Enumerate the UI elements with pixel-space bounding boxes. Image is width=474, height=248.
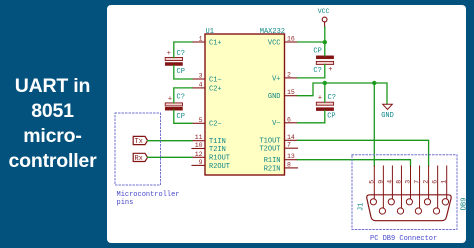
svg-text:8: 8 (395, 180, 402, 184)
pin 9 R2OUT (192, 159, 230, 171)
wire Rx to pin 12 (148, 156, 192, 158)
pin 15 GND (268, 89, 298, 101)
svg-text:MAX232: MAX232 (260, 28, 285, 36)
pin 11 T1IN (192, 134, 226, 146)
svg-text:T1IN: T1IN (209, 138, 226, 146)
svg-text:C2−: C2− (209, 121, 222, 129)
junction node VCC/pin16 (323, 40, 327, 44)
wire T1OUT to DB9 pin 2 (298, 140, 429, 166)
svg-text:CP: CP (177, 113, 185, 121)
wire pin 6 V- (298, 122, 325, 124)
capacitor C4 (CP, GND to V-) (316, 94, 336, 120)
IC U1 MAX232 body (205, 28, 285, 175)
DB9 pin 4 (386, 166, 394, 205)
pin 12 R1OUT (192, 151, 230, 163)
wire GND drop to DB9 pin 5 (373, 83, 375, 166)
svg-text:+: + (318, 95, 322, 103)
svg-text:R2IN: R2IN (264, 165, 281, 173)
pin 1 C1+ (192, 36, 222, 48)
svg-text:GND: GND (381, 112, 394, 120)
pin 6 V- (272, 116, 297, 128)
svg-text:VCC: VCC (318, 8, 330, 15)
svg-text:7: 7 (287, 142, 291, 149)
svg-text:C?: C? (177, 50, 185, 58)
wire Tx to pin 11 (148, 140, 192, 142)
svg-text:Microcontroller: Microcontroller (117, 191, 180, 199)
svg-text:12: 12 (195, 151, 203, 158)
svg-text:10: 10 (195, 142, 203, 149)
svg-text:VCC: VCC (268, 39, 281, 47)
svg-text:7: 7 (414, 180, 421, 184)
wire pin 15 GND step (298, 83, 375, 96)
pin 2 V+ (272, 71, 297, 83)
svg-text:CP: CP (177, 68, 185, 76)
svg-text:V−: V− (272, 120, 280, 128)
svg-text:CP: CP (313, 48, 321, 56)
DB9 pin 8 (395, 166, 403, 214)
pin 3 C1- (192, 73, 222, 85)
wire C1 bottom to pin 3 (174, 66, 192, 80)
svg-text:J1: J1 (358, 203, 366, 211)
svg-text:GND: GND (268, 93, 281, 101)
svg-text:8: 8 (287, 161, 291, 168)
svg-text:6: 6 (432, 180, 439, 184)
capacitor C3 (CP, VCC to V+) (313, 48, 333, 76)
svg-text:+: + (168, 95, 172, 103)
svg-text:C?: C? (177, 94, 185, 102)
capacitor C2 (CP, left bottom) (165, 94, 185, 122)
svg-text:C1−: C1− (209, 76, 222, 84)
connector J1 DB9 body (358, 195, 469, 221)
wire C4 bottom to V- line (324, 111, 326, 123)
pin 16 VCC (268, 36, 298, 48)
svg-text:pins: pins (117, 199, 134, 207)
svg-text:2: 2 (287, 71, 291, 78)
svg-text:1: 1 (199, 36, 203, 43)
svg-text:Tx: Tx (134, 138, 142, 146)
svg-text:+: + (167, 50, 171, 58)
svg-text:R1IN: R1IN (264, 157, 281, 165)
DB9 pin 3 (405, 166, 413, 205)
wire C3 bottom to V+ line (324, 64, 326, 78)
svg-text:DB9: DB9 (460, 198, 468, 211)
wire C1 top to pin 1 (174, 42, 192, 58)
wire R1IN to DB9 pin 3 (298, 160, 411, 166)
wire C2 top to pin 4 (174, 88, 192, 103)
power symbol VCC (318, 8, 330, 27)
DB9 pin 9 (377, 166, 385, 214)
wire pin16 to node (298, 41, 325, 43)
DB9 pin 5 (368, 166, 376, 205)
svg-text:C?: C? (328, 94, 336, 102)
svg-text:Rx: Rx (134, 155, 142, 163)
svg-text:1: 1 (441, 180, 448, 184)
svg-text:T2IN: T2IN (209, 146, 226, 154)
DB9 pin 1 (441, 166, 449, 205)
wire C2 bottom to pin 5 (174, 110, 192, 123)
PC DB9 connector dashed box (352, 155, 457, 243)
label Tx (133, 136, 147, 146)
svg-text:5: 5 (199, 117, 203, 124)
wire VCC to pin16 node (324, 27, 326, 42)
svg-text:3: 3 (199, 73, 203, 80)
ground (381, 104, 394, 120)
DB9 pin 2 (423, 166, 431, 205)
pin 5 C2- (192, 117, 222, 129)
svg-text:13: 13 (287, 153, 295, 160)
svg-text:9: 9 (377, 180, 384, 184)
microcontroller pins dashed box (115, 113, 180, 207)
svg-text:9: 9 (199, 159, 203, 166)
svg-text:U1: U1 (206, 28, 214, 36)
wire pin 2 V+ (298, 77, 325, 79)
svg-text:11: 11 (195, 134, 203, 141)
svg-text:C?: C? (313, 67, 321, 75)
svg-text:+: + (328, 66, 332, 74)
pin 10 T2IN (192, 142, 226, 154)
svg-text:4: 4 (199, 81, 203, 88)
svg-text:CP: CP (327, 112, 335, 120)
svg-text:2: 2 (423, 180, 430, 184)
junction node GND rail / DB9 drop (372, 81, 376, 85)
svg-text:PC DB9 Connector: PC DB9 Connector (370, 235, 437, 243)
DB9 pin 7 (414, 166, 422, 214)
svg-text:C1+: C1+ (209, 39, 222, 47)
svg-text:4: 4 (386, 180, 393, 184)
svg-text:R2OUT: R2OUT (209, 163, 230, 171)
label Rx (133, 153, 147, 163)
svg-text:6: 6 (287, 116, 291, 123)
pin 13 R1IN (264, 153, 298, 165)
svg-text:V+: V+ (272, 75, 280, 83)
svg-text:C2+: C2+ (209, 85, 222, 93)
capacitor C1 (CP, left top) (165, 50, 185, 76)
pin 4 C2+ (192, 81, 222, 93)
svg-text:3: 3 (405, 180, 412, 184)
DB9 pin 6 (432, 166, 440, 214)
junction node C4/GND rail (323, 81, 327, 85)
wire GND node to C4 top (324, 83, 326, 102)
svg-text:16: 16 (287, 36, 295, 43)
wire node to C3 top (324, 42, 326, 56)
pin 8 R2IN (264, 161, 298, 173)
svg-text:T1OUT: T1OUT (259, 138, 280, 146)
svg-text:5: 5 (368, 180, 375, 184)
svg-text:T2OUT: T2OUT (259, 146, 280, 154)
svg-text:15: 15 (287, 89, 295, 96)
pin 7 T2OUT (259, 142, 297, 154)
wire GND rail to ground symbol (374, 83, 387, 104)
svg-text:14: 14 (287, 134, 295, 141)
svg-text:R1OUT: R1OUT (209, 155, 230, 163)
pin 14 T1OUT (259, 134, 297, 146)
